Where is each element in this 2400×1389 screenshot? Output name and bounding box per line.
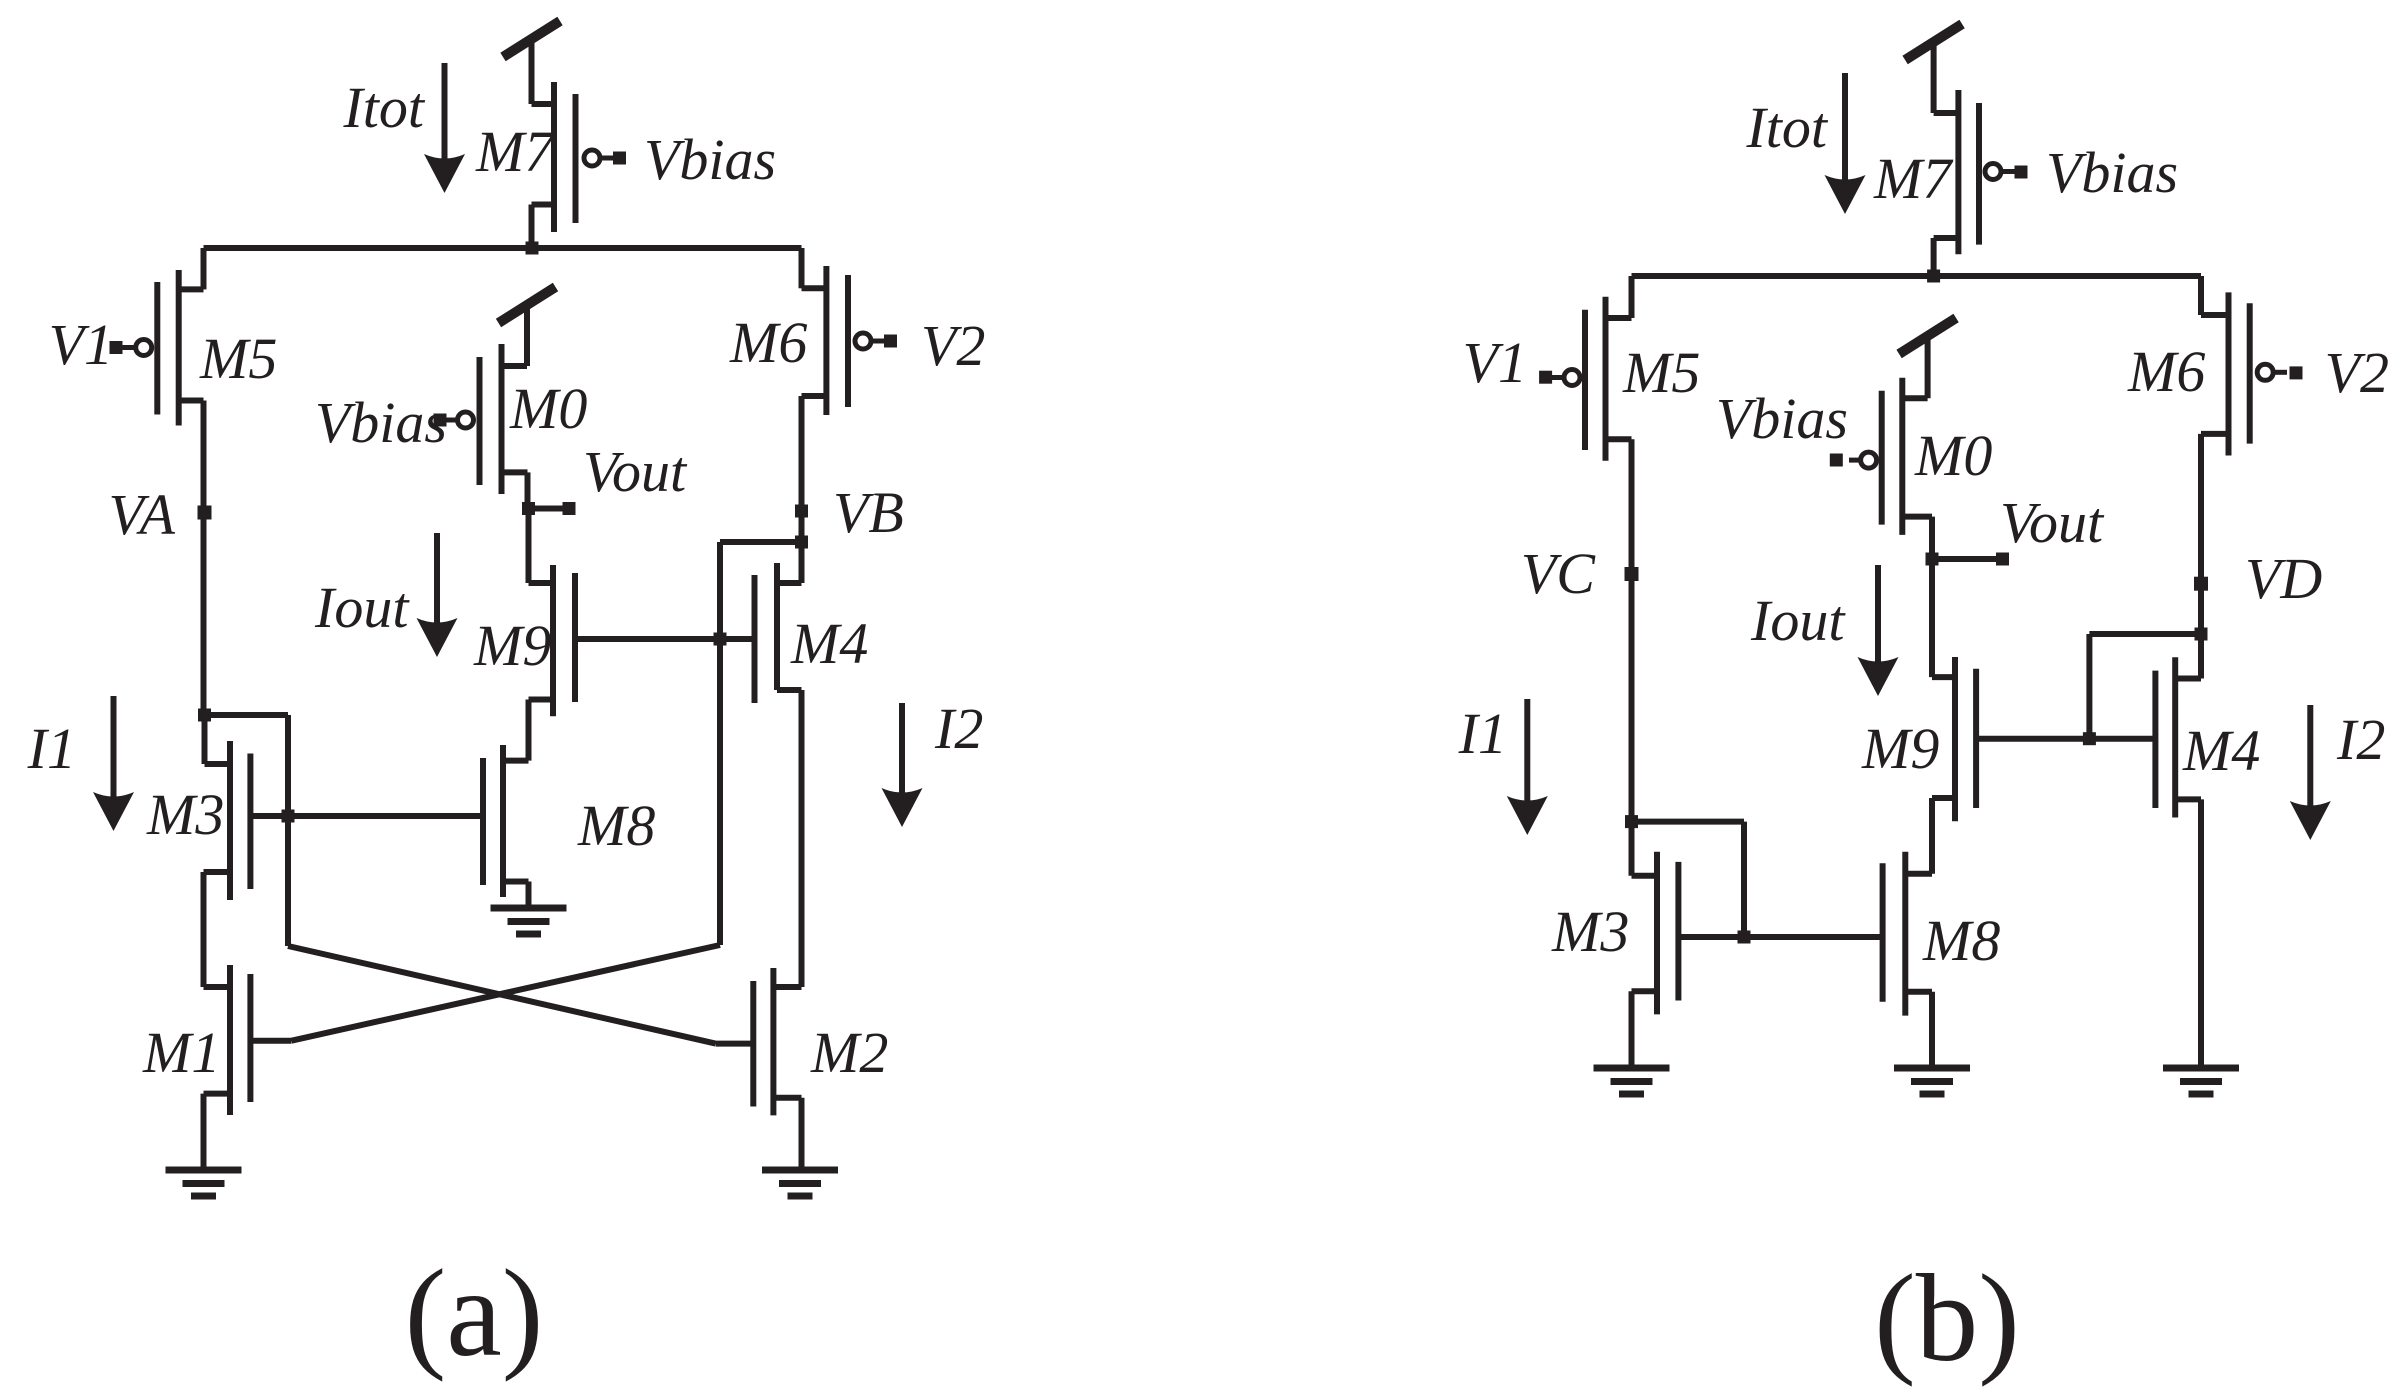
wire junction to M3 drain (a) bbox=[202, 715, 208, 764]
transistor M6 (b) bbox=[2201, 292, 2250, 455]
current arrow Iout (b) bbox=[1858, 565, 1899, 696]
transistor M0 (b) bbox=[1882, 378, 1932, 535]
terminal Vout (a) bbox=[563, 502, 576, 515]
terminal Vbias M7 (a) bbox=[613, 152, 626, 165]
label M8 (b) bbox=[1922, 908, 2000, 973]
ground under M8 (a) bbox=[491, 908, 567, 934]
svg-text:Vbias: Vbias bbox=[2046, 140, 2178, 205]
node VD (b) bbox=[2194, 577, 2208, 591]
wire M3 source down (b) bbox=[1629, 991, 1635, 1068]
wire M5 drain to node VC to M3 (b) bbox=[1629, 439, 1635, 821]
svg-text:M3: M3 bbox=[1551, 899, 1629, 964]
label M5 (b) bbox=[1622, 340, 1700, 405]
wire VB to M4 gate link horizontal (a) bbox=[720, 539, 802, 545]
label Vbias at M7 (b) bbox=[2046, 140, 2178, 205]
transistor M4 (a) bbox=[755, 563, 802, 703]
label VB (a) bbox=[833, 480, 904, 545]
node VB terminal (a) bbox=[795, 505, 808, 518]
svg-text:M5: M5 bbox=[1622, 340, 1700, 405]
label M6 (b) bbox=[2127, 339, 2205, 404]
node junction on rail (a) at M7 drain bbox=[526, 242, 539, 255]
supply symbol VDD at M7 (b) bbox=[1905, 24, 1962, 113]
wire M4 gate link horizontal (b) bbox=[2089, 631, 2201, 637]
svg-text:V1: V1 bbox=[49, 312, 113, 377]
label Vout (a) bbox=[583, 439, 688, 504]
svg-text:Vout: Vout bbox=[2000, 490, 2105, 555]
label Iout (b) bbox=[1750, 588, 1846, 653]
svg-text:M0: M0 bbox=[1914, 423, 1992, 488]
wire VB to M4 gate link vertical (a) bbox=[717, 542, 723, 945]
svg-text:M6: M6 bbox=[729, 310, 807, 375]
node Vout junction (b) bbox=[1926, 553, 1939, 566]
transistor M2 (a) bbox=[753, 968, 801, 1115]
wire M7 source jog (b) bbox=[1934, 110, 1959, 116]
label M6 (a) bbox=[729, 310, 807, 375]
pmos bubble M0 (b) bbox=[1849, 452, 1877, 468]
transistor M8 (a) bbox=[483, 745, 529, 897]
svg-text:M4: M4 bbox=[790, 611, 868, 676]
node VA (a) bbox=[198, 506, 212, 520]
ground under M8 (b) bbox=[1894, 1068, 1970, 1094]
wire M6 drain to VB (a) bbox=[799, 396, 805, 542]
caption (b) bbox=[1874, 1250, 2020, 1388]
pmos bubble M0 (a) bbox=[446, 412, 474, 428]
terminal V2 (a) bbox=[884, 335, 897, 348]
svg-text:M2: M2 bbox=[810, 1020, 888, 1085]
supply symbol VDD at M0 (a) bbox=[499, 287, 556, 366]
wire supply rail (b) bbox=[1632, 273, 2202, 279]
supply symbol VDD at M7 (a) bbox=[503, 21, 560, 104]
label M3 (a) bbox=[146, 782, 224, 847]
wire M0 source jog (a) bbox=[502, 363, 528, 369]
label V2 (a) bbox=[921, 313, 985, 378]
svg-text:M7: M7 bbox=[475, 119, 555, 184]
svg-text:M7: M7 bbox=[1873, 146, 1953, 211]
svg-text:Itot: Itot bbox=[342, 75, 425, 140]
wire M0 drain to Vout node (b) bbox=[1929, 517, 1935, 559]
label Vbias at M0 (a) bbox=[315, 390, 447, 455]
transistor M1 (a) bbox=[204, 965, 251, 1115]
svg-text:VA: VA bbox=[108, 482, 175, 547]
ground under M1 (a) bbox=[166, 1170, 242, 1196]
wire rail to M5 source (a) bbox=[179, 248, 204, 289]
wire M3 gate to M8 gate (b) bbox=[1678, 934, 1882, 940]
label M7 (b) bbox=[1873, 146, 1953, 211]
wire M8 source down (b) bbox=[1929, 992, 1935, 1068]
node junction M9/M4 gates (a) bbox=[714, 633, 727, 646]
wire rail to M6 source (b) bbox=[2201, 276, 2229, 315]
terminal Vbias M0 (a) bbox=[434, 414, 447, 427]
label M5 (a) bbox=[199, 326, 277, 391]
label VA (a) bbox=[108, 482, 175, 547]
label M9 (b) bbox=[1861, 716, 1939, 781]
transistor M7 (b) bbox=[1934, 90, 1979, 254]
wire M3 gate to M8 gate (a) bbox=[250, 813, 483, 819]
svg-text:Vbias: Vbias bbox=[644, 127, 776, 192]
wire M3 drain-gate link horizontal (b) bbox=[1632, 819, 1745, 825]
wire M4 source to M2 drain (a) bbox=[799, 690, 805, 987]
label M9 (a) bbox=[473, 613, 551, 678]
svg-text:I1: I1 bbox=[27, 716, 76, 781]
current arrow I1 (b) bbox=[1507, 699, 1548, 835]
svg-text:M0: M0 bbox=[509, 376, 587, 441]
pmos bubble M7 (b) bbox=[1985, 164, 2015, 180]
current arrow Itot (b) bbox=[1825, 73, 1866, 214]
svg-text:M6: M6 bbox=[2127, 339, 2205, 404]
svg-text:VD: VD bbox=[2245, 546, 2322, 611]
transistor M3 (a) bbox=[204, 741, 251, 900]
terminal V1 (b) bbox=[1539, 371, 1552, 384]
wire M3 source to M1 drain (a) bbox=[201, 872, 207, 987]
node junction VA wire / M3 drain (a) bbox=[198, 709, 211, 722]
ground under M3 (b) bbox=[1594, 1068, 1670, 1094]
pmos bubble M5 (b) bbox=[1551, 370, 1580, 386]
svg-text:Vbias: Vbias bbox=[315, 390, 447, 455]
label M4 (a) bbox=[790, 611, 868, 676]
label I2 (a) bbox=[934, 696, 983, 761]
label M4 (b) bbox=[2182, 718, 2260, 783]
wire M9 gate to M4 gate (a) bbox=[575, 636, 755, 642]
wire supply rail (a) bbox=[204, 245, 802, 251]
node junction M3 gate (a) bbox=[282, 810, 295, 823]
svg-text:Iout: Iout bbox=[1750, 588, 1846, 653]
label M8 (a) bbox=[577, 793, 655, 858]
wire Vout to M9 drain (b) bbox=[1929, 559, 1935, 677]
terminal Vbias M0 (b) bbox=[1830, 454, 1843, 467]
label VD (b) bbox=[2245, 546, 2322, 611]
wire M7 source jog (a) bbox=[532, 101, 555, 107]
wire VB to M4 drain (a) bbox=[799, 542, 805, 583]
caption (a) bbox=[405, 1245, 544, 1383]
node junction on rail (b) at M7 drain bbox=[1927, 270, 1940, 283]
node junction M3 gate (b) bbox=[1738, 931, 1751, 944]
svg-text:M9: M9 bbox=[473, 613, 551, 678]
label Itot (a) bbox=[342, 75, 425, 140]
transistor M5 (a) bbox=[157, 270, 203, 426]
wire M1 gate lead (a) bbox=[250, 1038, 291, 1044]
wire Vout to M9 drain (a) bbox=[526, 509, 532, 584]
svg-text:Vout: Vout bbox=[583, 439, 688, 504]
label Iout (a) bbox=[314, 575, 410, 640]
transistor M7 (a) bbox=[532, 82, 576, 232]
node VB junction (a) bbox=[795, 536, 808, 549]
terminal V1 (a) bbox=[110, 341, 123, 354]
svg-text:M3: M3 bbox=[146, 782, 224, 847]
svg-text:M9: M9 bbox=[1861, 716, 1939, 781]
pmos bubble M7 (a) bbox=[584, 150, 614, 166]
wire M4 gate link vertical (b) bbox=[2086, 634, 2092, 739]
node junction M9/M4 gates (b) bbox=[2083, 732, 2096, 745]
transistor M9 (a) bbox=[529, 565, 576, 716]
wire cross-couple M1 gate to M4node (a) bbox=[292, 945, 721, 1041]
wire M3 drain-gate link vertical (b) bbox=[1741, 822, 1747, 937]
terminal Vbias M7 (b) bbox=[2015, 166, 2028, 179]
current arrow I2 (b) bbox=[2290, 705, 2331, 840]
terminal Vout (b) bbox=[1996, 553, 2009, 566]
transistor M5 (b) bbox=[1585, 297, 1632, 461]
current arrow I2 (a) bbox=[882, 703, 923, 827]
wire M7 drain to rail (b) bbox=[1931, 238, 1937, 276]
label V1 (b) bbox=[1463, 330, 1527, 395]
current arrow Itot (a) bbox=[424, 63, 465, 193]
ground under M4 (b) bbox=[2163, 1068, 2239, 1094]
node junction VD link (b) bbox=[2195, 628, 2208, 641]
wire VD link to M4 drain (b) bbox=[2198, 634, 2204, 679]
pmos bubble M6 (a) bbox=[855, 333, 884, 349]
pmos bubble M6 (b) bbox=[2257, 364, 2287, 380]
wire M0 source jog (b) bbox=[1902, 395, 1927, 401]
label M1 (a) bbox=[142, 1020, 220, 1085]
wire M7 drain to rail (a) bbox=[529, 205, 535, 249]
ground under M2 (a) bbox=[762, 1170, 838, 1196]
label Vbias at M7 (a) bbox=[644, 127, 776, 192]
pmos bubble M5 (a) bbox=[122, 340, 152, 356]
transistor M4 (b) bbox=[2155, 657, 2201, 817]
label V1 (a) bbox=[49, 312, 113, 377]
label M0 (a) bbox=[509, 376, 587, 441]
label M2 (a) bbox=[810, 1020, 888, 1085]
svg-text:VB: VB bbox=[833, 480, 904, 545]
svg-text:I2: I2 bbox=[934, 696, 983, 761]
current arrow Iout (a) bbox=[417, 533, 458, 657]
wire M2 source down (a) bbox=[799, 1098, 805, 1170]
transistor M0 (a) bbox=[480, 344, 528, 494]
wire M3 drain-gate link horizontal (a) bbox=[205, 712, 289, 718]
svg-text:(b): (b) bbox=[1874, 1250, 2020, 1388]
wire rail to M5 source (b) bbox=[1606, 276, 1632, 318]
svg-text:I2: I2 bbox=[2336, 707, 2385, 772]
label Vout (b) bbox=[2000, 490, 2105, 555]
svg-text:V2: V2 bbox=[921, 313, 985, 378]
wire M6 drain to VD to M4 link (b) bbox=[2198, 434, 2204, 634]
current arrow I1 (a) bbox=[93, 696, 134, 831]
svg-text:V1: V1 bbox=[1463, 330, 1527, 395]
svg-text:M8: M8 bbox=[1922, 908, 2000, 973]
svg-text:Vbias: Vbias bbox=[1716, 386, 1848, 451]
label I1 (a) bbox=[27, 716, 76, 781]
label I1 (b) bbox=[1458, 701, 1507, 766]
wire Vout stub (a) bbox=[529, 506, 570, 512]
label M7 (a) bbox=[475, 119, 555, 184]
transistor M9 (b) bbox=[1932, 657, 1976, 821]
wire M1 source down (a) bbox=[201, 1094, 207, 1170]
wire M5 drain to node VA to M3 (a) bbox=[201, 401, 207, 716]
wire M0 drain to Vout node (a) bbox=[525, 472, 531, 508]
terminal V2 (b) bbox=[2290, 366, 2303, 379]
svg-text:Itot: Itot bbox=[1745, 95, 1828, 160]
node VC (b) bbox=[1625, 567, 1639, 581]
wire M9 gate to M4 gate (b) bbox=[1976, 736, 2155, 742]
label Itot (b) bbox=[1745, 95, 1828, 160]
wire M2 gate lead (a) bbox=[716, 1041, 754, 1047]
svg-text:M5: M5 bbox=[199, 326, 277, 391]
svg-text:M4: M4 bbox=[2182, 718, 2260, 783]
supply symbol VDD at M0 (b) bbox=[1899, 318, 1956, 398]
wire Vout stub (b) bbox=[1932, 556, 2003, 562]
label VC (b) bbox=[1521, 541, 1596, 606]
svg-text:(a): (a) bbox=[405, 1245, 544, 1383]
wire junction to M3 drain (b) bbox=[1629, 822, 1635, 876]
wire M3 drain-gate link vertical (a) bbox=[285, 715, 291, 946]
node junction VC wire / M3 drain (b) bbox=[1625, 815, 1638, 828]
svg-text:Iout: Iout bbox=[314, 575, 410, 640]
wire M9 source to M8 drain (a) bbox=[526, 700, 532, 761]
svg-text:VC: VC bbox=[1521, 541, 1596, 606]
transistor M3 (b) bbox=[1632, 852, 1679, 1015]
svg-text:V2: V2 bbox=[2325, 340, 2389, 405]
svg-text:M1: M1 bbox=[142, 1020, 220, 1085]
wire M8 source down (a) bbox=[526, 882, 532, 909]
label I2 (b) bbox=[2336, 707, 2385, 772]
transistor M8 (b) bbox=[1883, 852, 1932, 1016]
wire M9 source to M8 drain (b) bbox=[1929, 798, 1935, 874]
wire cross-couple M3node to M2 gate (a) bbox=[288, 946, 716, 1044]
node Vout junction (a) bbox=[522, 502, 535, 515]
wire rail to M6 source (a) bbox=[802, 248, 827, 288]
label Vbias at M0 (b) bbox=[1716, 386, 1848, 451]
label V2 (b) bbox=[2325, 340, 2389, 405]
transistor M6 (a) bbox=[802, 266, 849, 415]
label M0 (b) bbox=[1914, 423, 1992, 488]
label M3 (b) bbox=[1551, 899, 1629, 964]
wire M4 source down (b) bbox=[2198, 799, 2204, 1068]
svg-text:I1: I1 bbox=[1458, 701, 1507, 766]
svg-text:M8: M8 bbox=[577, 793, 655, 858]
